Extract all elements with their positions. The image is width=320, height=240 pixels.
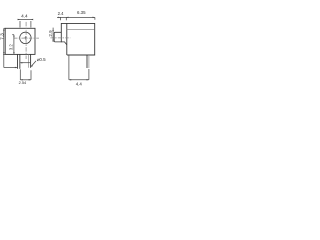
svg-text:7.3: 7.3 <box>0 33 6 40</box>
front view barrel circle <box>20 32 31 43</box>
svg-text:6.35: 6.35 <box>77 10 86 15</box>
pin diameter 0.5 arrows <box>4 61 36 68</box>
left dimension line 7.3 <box>3 28 5 67</box>
dimension 4.4 top of front view <box>18 20 33 28</box>
barrel outline <box>54 32 67 44</box>
pin P1 left line <box>16 54 18 68</box>
dimension 2.54 bottom <box>20 69 31 80</box>
svg-text:⌀0.5: ⌀0.5 <box>37 57 46 62</box>
svg-text:3.2: 3.2 <box>8 44 13 50</box>
background <box>0 0 100 100</box>
side bottom dimension 4.4 <box>69 55 89 80</box>
side pin left line <box>86 55 88 68</box>
svg-text:4.4: 4.4 <box>21 13 28 18</box>
pin P2 right line <box>30 54 32 67</box>
flange back vertical <box>66 23 68 55</box>
arrowheads 4.4 <box>18 19 34 21</box>
svg-text:2.54: 2.54 <box>19 80 27 85</box>
front view body rectangle <box>5 28 35 54</box>
svg-text:4.4: 4.4 <box>76 82 83 87</box>
svg-text:2.4: 2.4 <box>58 11 65 16</box>
pin P1 right line <box>19 54 21 68</box>
front view circle center cross <box>24 36 27 39</box>
inner faint line <box>67 29 95 31</box>
inner dimension line 3.2 <box>12 35 14 55</box>
front view horizontal centerline <box>14 37 39 39</box>
top dimensions 2.4 and 6.35 <box>57 17 95 20</box>
pin P2 left line <box>27 54 29 67</box>
barrel diameter dim line <box>52 28 54 42</box>
front view vertical centerline <box>14 22 39 59</box>
side pin right line <box>88 55 90 68</box>
side view centerline <box>50 37 70 39</box>
side body outline <box>61 23 94 55</box>
svg-text:2.9: 2.9 <box>48 30 53 37</box>
